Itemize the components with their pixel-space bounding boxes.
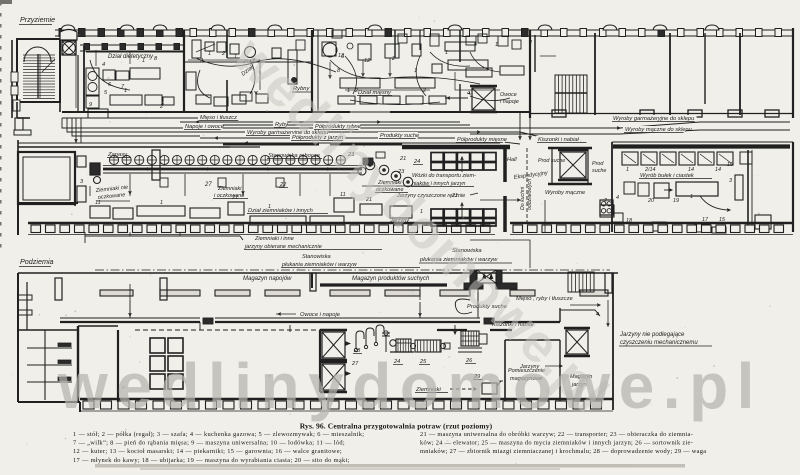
meat dept machines (center) (322, 42, 488, 104)
machine 25 washing machine (410, 340, 450, 365)
basement top elevator shaft (464, 270, 517, 289)
svg-text:oddziałowych: oddziałowych (527, 179, 533, 210)
label Dzial dietetyczny (108, 54, 154, 60)
svg-text:i oczkowane: i oczkowane (214, 193, 244, 199)
svg-text:płukania ziemniaków i warzy: płukania ziemniaków i warzyw (281, 262, 358, 268)
machine 26 sorter (458, 331, 487, 364)
svg-text:1: 1 (690, 194, 693, 200)
flow band labels (198, 114, 240, 121)
middle top wall bars right (223, 143, 402, 146)
washing station pipes 28 (354, 325, 390, 352)
labels below middle building (244, 236, 382, 250)
svg-text:21: 21 (231, 195, 238, 201)
labels 28 27 (351, 348, 362, 367)
svg-text:Ziemniaki: Ziemniaki (217, 186, 242, 192)
svg-text:1: 1 (626, 167, 629, 173)
svg-text:22: 22 (279, 182, 287, 188)
label Wyrob bulek i ciastek (639, 173, 712, 179)
mid numbers (95, 192, 607, 215)
svg-text:czyszczeniu mechanicznemu: czyszczeniu mechanicznemu (620, 340, 698, 346)
extra top machines (186, 30, 524, 103)
top wall window bumps (61, 25, 719, 30)
basement corridor wall (60, 308, 560, 322)
basement mid wall segments (437, 329, 512, 331)
label Kiszonki i nabial middle (0, 0, 1, 1)
basement top dash-dot line (95, 269, 610, 271)
basement elevators pair (320, 330, 351, 392)
flow band arrows horizontal lines (62, 118, 790, 144)
label Dzial ziemniakow i innych (247, 208, 328, 214)
label Stanowiska robocze (267, 153, 322, 159)
svg-text:2/14: 2/14 (644, 167, 656, 173)
basement right elevator (564, 328, 590, 356)
label jarzyny arrow (519, 364, 562, 370)
svg-text:1: 1 (160, 200, 163, 206)
label Przyziemie (19, 15, 55, 25)
svg-text:21 — maszyna uniwersalna do ob: 21 — maszyna uniwersalna do obróbki warz… (420, 431, 693, 438)
svg-text:Podziemia: Podziemia (20, 257, 54, 266)
label Dzial (241, 64, 255, 77)
svg-text:3: 3 (729, 178, 732, 184)
top building bottom walls (62, 110, 793, 118)
basement hall wall (78, 326, 330, 402)
dumbwaiter box (60, 30, 77, 56)
basement outline (18, 273, 618, 412)
svg-text:17 — młynek do kawy; 18 — ubij: 17 — młynek do kawy; 18 — ubijarka; 19 —… (73, 457, 350, 464)
svg-text:Kiszonki i nabiał: Kiszonki i nabiał (538, 137, 580, 143)
potato peelers 23 group (363, 152, 413, 187)
svg-text:mniaków; 27 — zbiornik miazgi: mniaków; 27 — zbiornik miazgi ziemniacza… (420, 448, 706, 455)
flow lines below middle window row (85, 232, 243, 243)
label Zapasy (107, 152, 131, 158)
labels ziemniaki oczkowane (95, 185, 130, 201)
svg-text:9: 9 (89, 102, 92, 108)
basement corridor door marks (203, 318, 494, 324)
svg-text:Dział dietetyczny: Dział dietetyczny (108, 54, 154, 60)
labels 23 27 (204, 152, 406, 188)
svg-text:Magazyn napojów: Magazyn napojów (243, 276, 292, 282)
svg-text:1: 1 (445, 50, 448, 56)
basement flow curves (130, 284, 609, 326)
top flow lines curvy extra (90, 52, 510, 105)
svg-text:2: 2 (603, 198, 607, 204)
svg-text:Wyroby mączne do sklepu: Wyroby mączne do sklepu (625, 127, 693, 133)
top building outer top wall with pillars (55, 29, 793, 37)
watermark horizontal wedlinydomowe.pl (57, 350, 763, 422)
svg-text:Napoje i owoce: Napoje i owoce (185, 124, 224, 130)
top flow lines interior (76, 44, 556, 108)
svg-text:Wyroby mączne: Wyroby mączne (545, 190, 585, 196)
svg-text:21: 21 (451, 193, 458, 199)
bins grid right of conveyor (413, 153, 496, 173)
svg-text:1: 1 (347, 88, 350, 94)
middle elevator kiszonki (548, 148, 592, 184)
svg-text:1: 1 (268, 204, 271, 210)
staircase block top-left (11, 39, 60, 135)
middle corridor walls (230, 147, 510, 232)
svg-text:Owoce: Owoce (500, 92, 517, 98)
basement staircase right (568, 272, 594, 292)
middle top wall (18, 143, 230, 147)
extra top rooms walls (227, 30, 460, 112)
svg-text:wedlinydomowe.pl: wedlinydomowe.pl (57, 350, 763, 422)
svg-text:Dział mięsny: Dział mięsny (358, 90, 392, 96)
svg-text:Do kuchni: Do kuchni (520, 186, 526, 210)
svg-text:27: 27 (204, 182, 212, 188)
svg-text:Półprodukty mięsne: Półprodukty mięsne (457, 137, 507, 143)
caption title (300, 422, 493, 431)
label Rybny (292, 86, 312, 92)
label stanowiska plukania right (419, 248, 512, 263)
svg-text:Rys. 96. Centralna przygotowal: Rys. 96. Centralna przygotowalnia potraw… (300, 422, 493, 431)
conveyor line 22 with work stations (90, 155, 366, 196)
magazyn produktow long wall bar (312, 273, 447, 288)
staircase top right wing (535, 35, 587, 113)
svg-text:11: 11 (340, 192, 346, 198)
basement top wall segments (55, 273, 612, 300)
labels wozki jarzyny hall (411, 173, 476, 187)
label magazyn jarzyn (570, 374, 592, 388)
label Dzial miesny (357, 90, 392, 96)
svg-text:Mięso i tłuszcz: Mięso i tłuszcz (200, 115, 237, 121)
produkty suche swirl (455, 299, 472, 314)
svg-text:Magazyn produktów suchych: Magazyn produktów suchych (352, 276, 430, 282)
svg-text:jarzyny obierane mechaniczni: jarzyny obierane mechanicznie (244, 244, 322, 250)
middle bottom wall with windows (28, 223, 793, 235)
labels flows basement (276, 310, 345, 318)
svg-text:Hall: Hall (507, 157, 517, 163)
machine 24 elevator (390, 339, 414, 365)
svg-text:12 — kuter; 13 — kocioł masars: 12 — kuter; 13 — kocioł masarski; 14 — p… (73, 448, 342, 455)
basement left cold rooms (18, 282, 78, 400)
svg-text:Wózki do transportu ziem-: Wózki do transportu ziem- (412, 173, 476, 179)
bakery machines (380, 0, 771, 233)
svg-text:4: 4 (616, 195, 619, 201)
elevator shaft top center (445, 86, 531, 140)
svg-text:1: 1 (142, 58, 145, 64)
svg-text:Produkty suche: Produkty suche (380, 133, 419, 139)
svg-text:20: 20 (647, 198, 654, 204)
top wing interior walls (60, 28, 793, 118)
smoke chambers cells (150, 338, 183, 389)
scan edge marks left (0, 0, 12, 248)
bakery numbers (616, 162, 734, 224)
svg-text:11: 11 (95, 200, 101, 206)
svg-text:Wyrób bułek i ciastek: Wyrób bułek i ciastek (640, 173, 695, 179)
svg-text:Prod: Prod (592, 161, 604, 167)
svg-text:Owoce i napoje: Owoce i napoje (300, 312, 341, 318)
svg-text:19: 19 (673, 198, 679, 204)
labels ekspedycyjny wyroby maczne prod suche (513, 170, 549, 181)
svg-text:Jarzyny nie podlegające: Jarzyny nie podlegające (619, 332, 685, 338)
svg-text:ków; 24 — elewator; 25 — maszy: ków; 24 — elewator; 25 — maszyna do myci… (420, 440, 693, 447)
labels magazyn napojow produktow (243, 276, 292, 282)
label jarzyny nie podlegajace (619, 332, 712, 346)
inner corridor wall left wing (80, 44, 312, 63)
svg-text:15: 15 (727, 162, 734, 168)
svg-text:14: 14 (688, 167, 694, 173)
machines row below conveyor (90, 198, 614, 225)
label Podziemia (19, 257, 54, 267)
watermark diagonal wedlinydomowe.pl (221, 25, 621, 425)
svg-text:1: 1 (208, 51, 211, 57)
svg-text:1 — stół; 2 — półka (regał); 3: 1 — stół; 2 — półka (regał); 3 — szafa; … (73, 431, 364, 438)
basement flow verticals (129, 292, 600, 334)
gas stove symbol (600, 200, 613, 215)
scan bottom shadow (95, 464, 685, 470)
svg-text:4: 4 (102, 62, 105, 68)
svg-text:Przyziemie: Przyziemie (20, 15, 55, 24)
bakery room right (612, 142, 793, 232)
scale 29 (473, 374, 503, 394)
rooms pomieszczenie magazynowe (505, 340, 560, 402)
svg-text:24: 24 (413, 159, 420, 165)
svg-text:14: 14 (715, 167, 721, 173)
basement bottom wall windows (80, 399, 613, 411)
vertical flow to kitchens (520, 148, 533, 225)
small machine numbers top wing (89, 40, 533, 110)
caption legend lines (73, 431, 706, 464)
label ziemniaki basement (415, 387, 476, 393)
svg-text:Wyroby garmażeryjne do skle: Wyroby garmażeryjne do sklepu (613, 116, 695, 122)
flow middle band curves (90, 186, 545, 268)
svg-text:Ziemniaki i inne: Ziemniaki i inne (254, 236, 294, 242)
middle building left storage block (18, 140, 160, 235)
kitchen machines left wing (dietetic dept) (86, 40, 344, 118)
svg-text:Stanowiska: Stanowiska (302, 254, 331, 260)
svg-text:suche: suche (592, 168, 606, 174)
svg-text:12: 12 (364, 58, 371, 64)
bins grid lower middle (431, 203, 496, 226)
svg-text:7 — „wilk”; 8 — pień do rąbani: 7 — „wilk”; 8 — pień do rąbania mięsa; 9… (73, 440, 345, 447)
svg-text:Dział ziemniaków i innych: Dział ziemniaków i innych (248, 208, 313, 214)
